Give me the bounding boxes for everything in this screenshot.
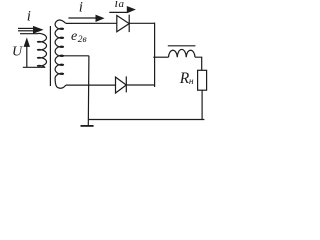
svg-text:U: U [12,44,23,59]
resistor RH (load) [198,70,207,90]
current arrow i (primary) [18,26,44,34]
transformer T1 secondary winding [55,20,66,88]
transformer T1 primary winding [38,33,47,67]
wire: D1 cathode to node A [129,22,155,24]
svg-text:i: i [27,8,31,24]
transformer core [49,26,51,86]
wire: center tap horizontal [63,55,89,57]
svg-text:н: н [189,77,194,87]
wire: node A vertical [154,23,156,88]
svg-text:e: e [71,29,77,44]
wire: D2 cathode to node A [126,84,154,86]
diode D1 (top) [117,15,129,32]
current arrow ia [109,6,136,13]
ground [81,125,94,127]
choke L (smoothing inductor) [169,49,196,57]
wire: center tap vertical to ground [87,56,90,126]
svg-text:а: а [119,0,125,10]
wire: choke to RH [195,57,202,70]
choke L core line [168,45,196,47]
diode D2 (bottom) [116,76,127,93]
wire: secondary bottom to D2 anode [66,84,116,86]
source voltage arrow U [24,37,30,67]
wire: secondary top to D1 anode [66,22,117,24]
svg-text:2в: 2в [78,35,87,45]
wire: node A to choke L [153,56,168,58]
svg-text:i: i [79,0,83,15]
wire: bottom rail [88,119,204,121]
wire: primary top lead [20,33,38,35]
current arrow i (secondary) [68,15,104,22]
wire: RH bottom lead [201,90,203,119]
wire: primary bottom lead [23,66,45,68]
